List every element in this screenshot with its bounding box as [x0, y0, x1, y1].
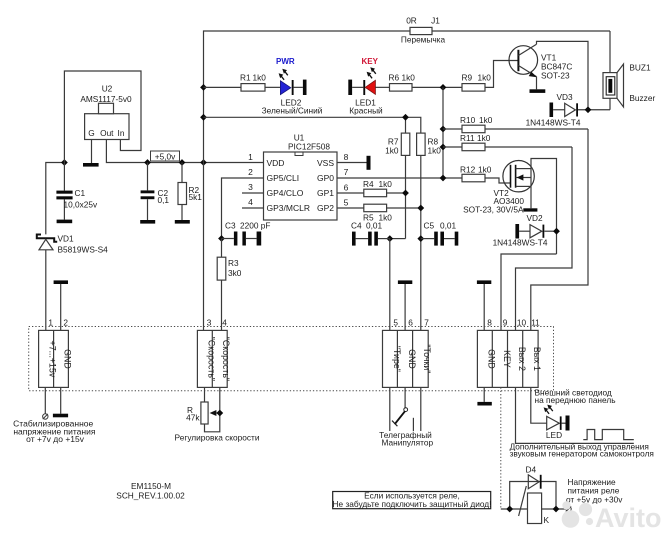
svg-text:R9: R9	[462, 73, 473, 83]
K label	[544, 515, 550, 525]
wire U2 G pin	[91, 140, 93, 164]
external LED note	[535, 388, 616, 406]
R7 label	[385, 137, 399, 156]
X3 pin numbers	[393, 318, 429, 328]
svg-text:1k0: 1k0	[402, 73, 416, 83]
resistor R3	[217, 239, 226, 331]
capacitor C3	[222, 232, 257, 246]
svg-text:5: 5	[344, 198, 349, 208]
svg-text:Avito: Avito	[595, 503, 662, 533]
resistor R8	[417, 133, 426, 330]
C1 value label	[64, 188, 99, 210]
node column-pullup feed	[200, 114, 207, 121]
VD3 label	[526, 92, 581, 128]
node relay right	[553, 506, 560, 513]
waveform pictogram	[583, 430, 634, 440]
svg-text:B5819WS-S4: B5819WS-S4	[58, 245, 109, 255]
J1 labels	[401, 16, 446, 45]
node keycol-R10	[440, 126, 447, 133]
svg-text:11: 11	[531, 318, 540, 328]
pot caption	[175, 433, 260, 443]
svg-text:PWR: PWR	[276, 57, 295, 66]
connector X3 (key input)	[383, 330, 429, 387]
R1 label	[240, 73, 266, 83]
wire input node horizontal to VD1 branch	[46, 163, 65, 235]
wire pin5 column	[389, 239, 391, 331]
pot label	[186, 405, 200, 423]
svg-text:Вых 2: Вых 2	[517, 347, 527, 371]
VD2 label	[493, 213, 548, 248]
diode VD3 1N4148WS	[550, 103, 611, 118]
R2 value label	[189, 185, 203, 202]
connector X4 (outputs)	[477, 330, 538, 387]
wire R11 to pin10	[516, 147, 573, 330]
svg-text:3: 3	[207, 318, 212, 328]
node R4-R7	[402, 190, 409, 197]
svg-text:3k0: 3k0	[228, 268, 242, 278]
U1 pin names	[267, 158, 335, 213]
svg-text:PIC12F508: PIC12F508	[288, 142, 330, 152]
node C4 junction	[386, 235, 393, 242]
ground bar below pin8	[477, 387, 491, 405]
resistor R5	[337, 204, 421, 212]
svg-text:4: 4	[222, 318, 227, 328]
svg-text:0,01: 0,01	[440, 221, 457, 231]
diode VD1 B5819WS (schottky)	[37, 235, 57, 331]
transistor VT2 AO3400 mosfet	[503, 159, 557, 255]
svg-text:R11: R11	[460, 133, 475, 143]
svg-text:0,1: 0,1	[158, 195, 170, 205]
svg-text:G: G	[88, 128, 94, 138]
svg-text:GND: GND	[62, 349, 72, 369]
svg-text:VSS: VSS	[317, 158, 334, 168]
diode VD2 1N4148WS	[515, 224, 556, 239]
node VD2/drain	[553, 228, 560, 235]
node relay left	[506, 506, 513, 513]
svg-text:GP1: GP1	[317, 188, 334, 198]
dashed connector border	[29, 327, 554, 391]
input voltage note	[13, 419, 96, 445]
svg-text:GP0: GP0	[317, 173, 334, 183]
svg-text:R6: R6	[389, 73, 400, 83]
svg-text:J1: J1	[431, 16, 440, 26]
wire KEY output: drain node to pin9	[501, 254, 557, 330]
chip U1 PIC12F508	[264, 152, 338, 220]
svg-text:GP2: GP2	[317, 203, 334, 213]
svg-text:Не забудьте подключить защитны: Не забудьте подключить защитный диод!	[333, 499, 492, 509]
svg-text:C1: C1	[75, 188, 86, 198]
svg-text:+5,0v: +5,0v	[155, 151, 176, 161]
wire GP0 row to R12	[337, 177, 462, 179]
ground bar above connector pin2	[54, 280, 68, 330]
svg-text:SCH_REV.1.00.02: SCH_REV.1.00.02	[116, 490, 185, 500]
node rail-R2	[179, 159, 186, 166]
switch caption	[379, 430, 433, 448]
svg-text:1N4148WS-T4: 1N4148WS-T4	[526, 118, 581, 128]
svg-text:GP4/CLO: GP4/CLO	[267, 188, 304, 198]
svg-text:VD3: VD3	[557, 92, 574, 102]
svg-text:R3: R3	[228, 258, 239, 268]
connector X2 (speed)	[197, 330, 227, 387]
capacitor C4	[352, 232, 390, 246]
R9 label	[462, 73, 492, 83]
svg-text:Out: Out	[100, 128, 114, 138]
telegraph key switch	[390, 387, 421, 431]
wire Vyh2 to aux output	[516, 387, 634, 443]
relay protection circuit	[501, 482, 566, 510]
svg-text:LED: LED	[546, 430, 562, 440]
svg-text:D4: D4	[526, 465, 537, 475]
svg-text:In: In	[118, 128, 125, 138]
svg-text:Перемычка: Перемычка	[401, 35, 446, 45]
wire VSS pin8	[337, 162, 367, 164]
svg-text:K: K	[544, 515, 550, 525]
wire U1 pin4 stub	[242, 207, 264, 209]
svg-text:GP3/MCLR: GP3/MCLR	[267, 203, 310, 213]
node rail-main column	[200, 159, 207, 166]
svg-text:на переднюю панель: на переднюю панель	[535, 395, 616, 405]
C4 label	[351, 221, 383, 231]
svg-text:C5: C5	[424, 221, 435, 231]
svg-text:1k0: 1k0	[477, 133, 491, 143]
X4 pin numbers	[487, 318, 540, 328]
relay note box	[333, 491, 492, 509]
R12 label	[460, 165, 492, 175]
buzzer BUZ1	[603, 31, 624, 110]
ground bar under C2	[140, 220, 155, 224]
C5 label	[424, 221, 457, 231]
X2 cell labels	[206, 337, 231, 381]
LED caption	[546, 430, 562, 440]
jumper 0R J1	[410, 27, 432, 34]
LED1 label	[349, 98, 383, 116]
svg-text:"Тире": "Тире"	[392, 346, 402, 372]
VT1 label	[541, 53, 572, 81]
node R5-R8	[417, 205, 424, 212]
svg-text:47k: 47k	[186, 413, 200, 423]
svg-text:Зеленый/Синий: Зеленый/Синий	[262, 106, 323, 116]
ground bar right of C3	[257, 232, 262, 246]
ground bar under VT1 emitter	[530, 89, 546, 93]
svg-text:SOT-23: SOT-23	[541, 71, 570, 81]
svg-text:GND: GND	[487, 349, 497, 369]
svg-text:8: 8	[344, 152, 349, 162]
R5 label	[363, 213, 392, 223]
node keycol-R11	[440, 144, 447, 151]
resistor R11	[443, 143, 572, 151]
svg-text:AMS1117-5v0: AMS1117-5v0	[80, 94, 132, 104]
svg-text:1: 1	[48, 318, 53, 328]
svg-text:R4: R4	[363, 179, 374, 189]
svg-text:VD2: VD2	[527, 213, 544, 223]
svg-text:2200 pF: 2200 pF	[240, 221, 270, 231]
connector X1 (power)	[39, 330, 69, 387]
wire U1 pin2 to C3/R3	[222, 178, 264, 239]
svg-text:Вых 1: Вых 1	[532, 347, 542, 371]
ground bar under VT2 source	[523, 208, 537, 211]
node C5 junction	[417, 235, 424, 242]
resistor R1	[204, 84, 281, 92]
capacitor C1	[56, 163, 72, 220]
wire U1 pin3 stub	[242, 192, 264, 194]
svg-text:C3: C3	[225, 221, 236, 231]
resistor R12	[462, 174, 511, 183]
svg-text:1k0: 1k0	[385, 146, 399, 156]
C3 label	[225, 221, 270, 231]
relay voltage note	[566, 477, 623, 505]
C2 value label	[158, 188, 170, 205]
svg-text:1k0: 1k0	[478, 73, 492, 83]
capacitor C2	[141, 163, 155, 221]
watermark avito	[562, 501, 662, 533]
node column-R1	[200, 84, 207, 91]
+5v feed line to pullups R7 R8	[204, 117, 421, 133]
svg-text:5k1: 5k1	[189, 192, 203, 202]
external LED	[544, 405, 570, 431]
svg-text:1k0: 1k0	[478, 165, 492, 175]
svg-text:VDD: VDD	[267, 158, 285, 168]
svg-text:1N4148WS-T4: 1N4148WS-T4	[493, 238, 548, 248]
node R6/R9/keycolumn	[440, 84, 447, 91]
svg-text:KEY: KEY	[502, 350, 512, 368]
svg-text:6: 6	[344, 182, 349, 192]
transistor VT1 BC847C	[509, 41, 588, 109]
svg-text:0R: 0R	[406, 16, 417, 26]
svg-text:1k0: 1k0	[253, 73, 267, 83]
svg-text:BUZ1: BUZ1	[629, 63, 651, 73]
node input junction	[61, 159, 68, 166]
svg-text:1k0: 1k0	[428, 146, 442, 156]
svg-text:2: 2	[248, 167, 253, 177]
R11 label	[460, 133, 491, 143]
LED1 red	[348, 67, 389, 95]
svg-text:1: 1	[248, 152, 253, 162]
svg-text:4: 4	[248, 197, 253, 207]
R4 label	[363, 179, 392, 189]
U1 label	[288, 133, 330, 152]
D4 label	[526, 465, 537, 475]
ground bar at VSS	[367, 156, 371, 170]
resistor R7	[401, 133, 410, 239]
ground bar under C1	[57, 220, 73, 224]
regulator U2 body	[85, 103, 129, 139]
node keycol-GP0	[440, 175, 447, 182]
R6 label	[389, 73, 416, 83]
svg-text:"Точки": "Точки"	[422, 344, 432, 373]
relay terminal	[566, 506, 571, 511]
svg-text:8: 8	[487, 318, 492, 328]
svg-text:GND: GND	[407, 349, 417, 369]
R8 label	[428, 137, 442, 156]
U2 label	[80, 84, 132, 105]
X1 cell labels	[48, 341, 73, 378]
PWR label	[276, 57, 295, 66]
ground bar above pin8	[477, 280, 491, 330]
U2 pin labels	[88, 128, 125, 138]
LED2 label	[262, 98, 323, 116]
svg-text:"Скорость": "Скорость"	[206, 337, 216, 381]
wire R10 to pin11	[531, 129, 588, 330]
node pot wiper	[216, 410, 223, 417]
svg-text:R10: R10	[460, 115, 476, 125]
node rail-C2	[144, 159, 151, 166]
resistor R2	[178, 163, 187, 221]
svg-text:5: 5	[393, 318, 398, 328]
svg-text:R1: R1	[240, 73, 251, 83]
svg-text:от +7v до +15v: от +7v до +15v	[26, 434, 85, 444]
net label +5,0v	[151, 151, 180, 161]
X4 cell labels	[487, 347, 543, 371]
resistor R10	[443, 125, 588, 133]
resistor R6	[390, 84, 463, 92]
VT2 label	[463, 188, 524, 214]
svg-text:+7...+15v: +7...+15v	[48, 341, 58, 378]
wire pin1 to terminal	[43, 387, 48, 419]
LED2 green/blue	[279, 69, 307, 95]
svg-text:Манипулятор: Манипулятор	[382, 438, 434, 448]
svg-text:звуковым генератором самоконтр: звуковым генератором самоконтроля	[510, 448, 654, 458]
svg-text:1k0: 1k0	[379, 179, 393, 189]
svg-text:GP5/CLI: GP5/CLI	[267, 173, 300, 183]
VD1 label	[58, 234, 109, 255]
svg-text:2: 2	[63, 318, 68, 328]
svg-text:9: 9	[503, 318, 508, 328]
svg-text:10: 10	[517, 318, 527, 328]
svg-text:VD1: VD1	[58, 234, 75, 244]
key column from R6 node down	[442, 87, 444, 178]
svg-text:Регулировка скорости: Регулировка скорости	[175, 433, 260, 443]
X1 pin numbers	[48, 318, 68, 328]
R3 label	[228, 258, 242, 278]
svg-text:0,01: 0,01	[366, 221, 383, 231]
svg-text:Buzzer: Buzzer	[629, 93, 655, 103]
wire U2 input loop	[64, 71, 141, 163]
node feed-R7	[402, 114, 409, 121]
ground bar under R2	[175, 220, 190, 224]
X2 pin numbers	[207, 318, 228, 328]
svg-text:10,0x25v: 10,0x25v	[64, 200, 99, 210]
diode D4	[528, 475, 541, 489]
svg-text:EM1150-M: EM1150-M	[131, 481, 171, 491]
capacitor C5	[421, 232, 459, 246]
svg-text:KEY: KEY	[362, 57, 379, 66]
resistor R4	[337, 189, 406, 197]
KEY label	[362, 57, 379, 66]
R10 label	[460, 115, 493, 125]
wire +5v rail from U2 Out to U1 pin1	[106, 140, 263, 163]
resistor R9	[462, 61, 518, 92]
svg-text:7: 7	[424, 318, 429, 328]
relay coil K	[519, 486, 542, 524]
ground bar above pin6	[398, 280, 412, 330]
wire R7 column elbow to pin5 column	[390, 238, 406, 240]
aux output caption	[510, 442, 654, 459]
U1 pin numbers	[248, 152, 349, 208]
BUZ1 label	[629, 63, 655, 104]
svg-text:C4: C4	[351, 221, 362, 231]
wire Vyh1 to external LED	[531, 387, 547, 423]
node C3 junction	[218, 235, 225, 242]
svg-text:Красный: Красный	[349, 106, 383, 116]
svg-text:7: 7	[344, 167, 349, 177]
potentiometer R 47k	[201, 387, 220, 431]
dashed KEY line to relay	[500, 387, 502, 509]
svg-text:U2: U2	[102, 84, 113, 94]
svg-text:SOT-23, 30V/5A: SOT-23, 30V/5A	[463, 205, 524, 215]
ground bar under G pin	[83, 163, 99, 167]
svg-text:1k0: 1k0	[479, 115, 493, 125]
svg-text:R12: R12	[460, 165, 476, 175]
svg-text:"Скорость": "Скорость"	[221, 337, 231, 381]
svg-text:6: 6	[408, 318, 413, 328]
node VD3/collector/buzzer	[585, 106, 592, 113]
ground bar under pin2	[53, 387, 68, 417]
svg-text:3: 3	[248, 182, 253, 192]
title block	[116, 481, 185, 501]
main +5v column (left)	[204, 31, 611, 330]
X3 cell labels	[392, 344, 432, 373]
